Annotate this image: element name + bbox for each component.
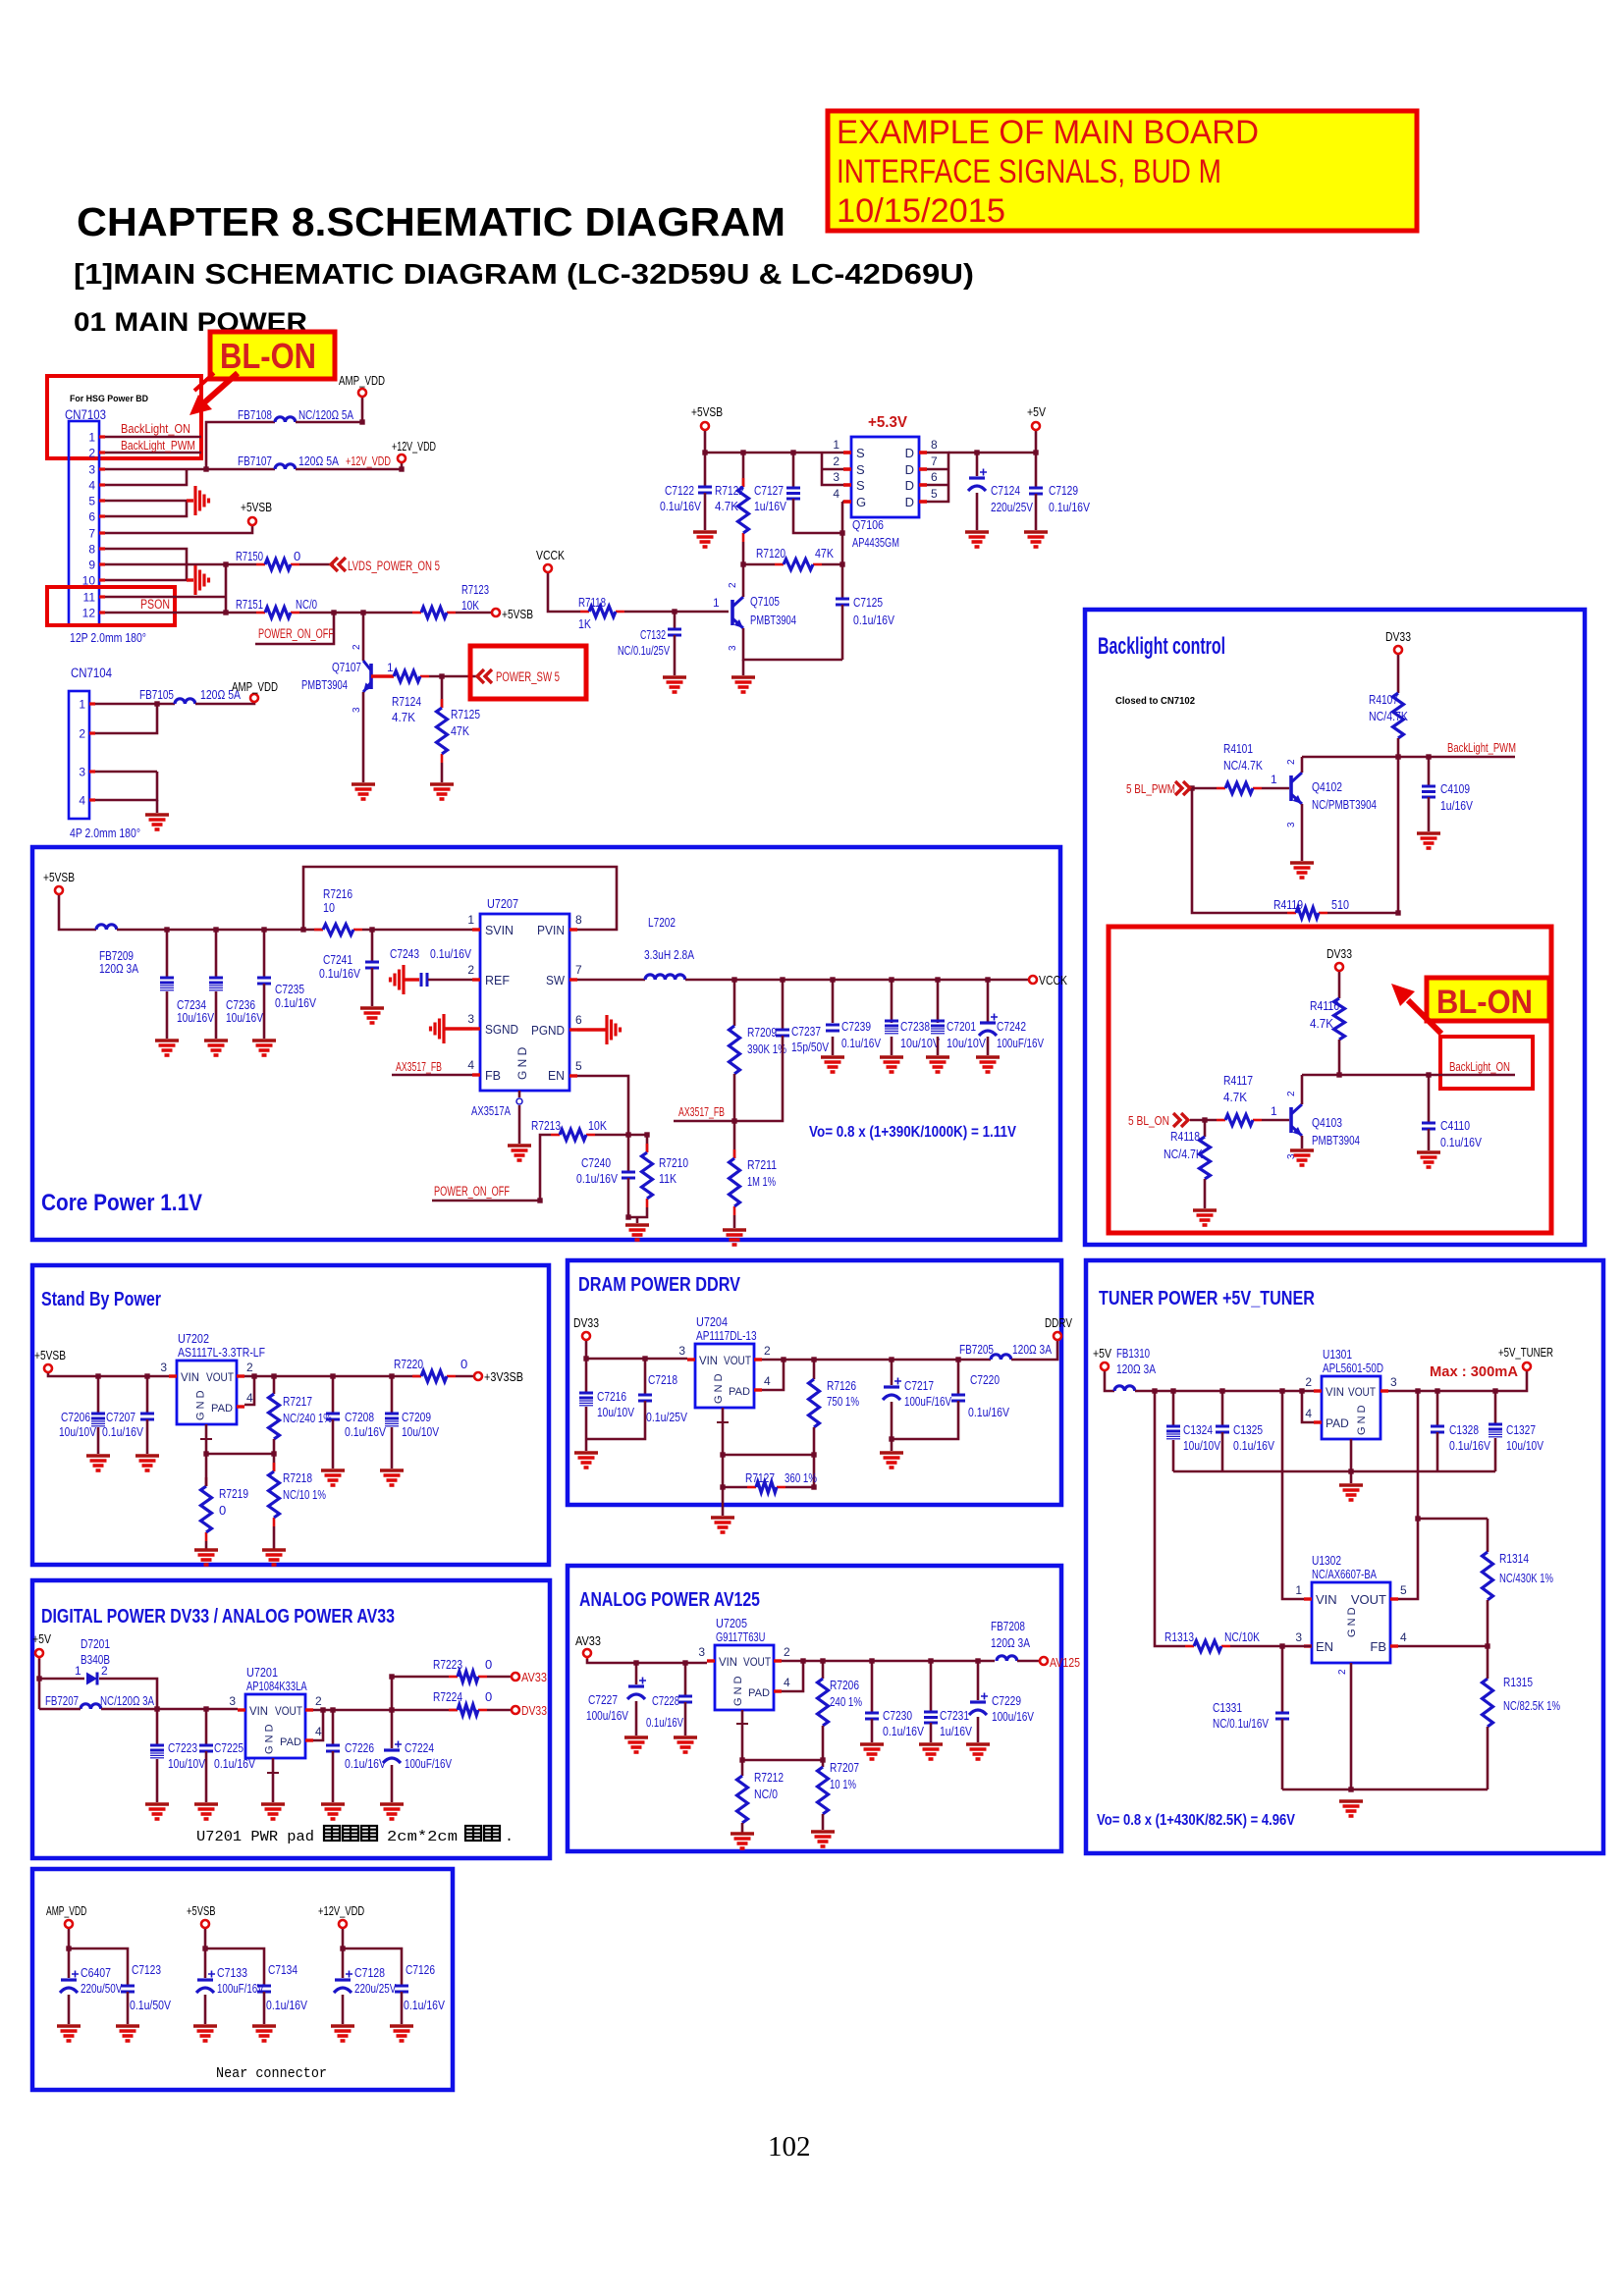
U1301 pin4 stub <box>1314 1420 1322 1423</box>
ground under R7211 <box>723 1228 746 1232</box>
svg-text:R1314: R1314 <box>1499 1551 1529 1566</box>
svg-text:C7228: C7228 <box>652 1693 679 1708</box>
svg-text:R7207: R7207 <box>830 1760 859 1775</box>
junction down to C7226 <box>332 1710 335 1745</box>
ground under C7238 <box>880 1055 903 1059</box>
svg-text:C1331: C1331 <box>1213 1700 1242 1715</box>
wire +5V down <box>38 1659 41 1709</box>
U7207 pin4 stub <box>472 1073 480 1076</box>
chassis ground CN7103 pins4-6 <box>195 486 209 515</box>
junction down to C1325 <box>1221 1391 1224 1426</box>
svg-text:PAD: PAD <box>729 1386 750 1398</box>
ground under R4118 <box>1193 1208 1217 1212</box>
wire C7225 to ground <box>205 1751 208 1802</box>
terminal +12V_VDD <box>398 454 406 462</box>
resistor R7210 <box>646 1144 649 1152</box>
ground under C7225 <box>194 1802 218 1806</box>
svg-text:C7238: C7238 <box>900 1019 930 1034</box>
svg-text:9: 9 <box>88 559 95 572</box>
svg-text:G N D: G N D <box>263 1724 275 1754</box>
svg-text:0.1u/50V: 0.1u/50V <box>130 1998 171 2012</box>
wire C7241 to ground <box>371 968 374 1006</box>
terminal +5V_TUNER <box>1523 1362 1531 1370</box>
wire R7210 bottom <box>628 1207 647 1217</box>
resistor R7118 <box>580 611 589 614</box>
junction down to C1324 <box>1172 1391 1175 1426</box>
ferrite bead FB7107 <box>275 464 296 469</box>
Q7106 pin 5 stub right <box>919 500 927 504</box>
wire C7125 bottom <box>841 605 844 660</box>
gnd net horizontal av125 <box>742 1759 823 1762</box>
svg-text:AMP_VDD: AMP_VDD <box>339 373 385 388</box>
svg-text:Q7107: Q7107 <box>332 660 361 674</box>
stub D pin7 <box>927 468 948 471</box>
capacitor C7235 <box>257 977 271 980</box>
svg-text:C7207: C7207 <box>106 1410 135 1424</box>
capacitor C7241 <box>365 961 379 964</box>
junction dots dram power <box>583 1356 960 1489</box>
wire R7120 left lead <box>743 563 775 566</box>
wire R7216 to SVIN <box>362 929 472 932</box>
svg-text:G: G <box>856 495 866 509</box>
blue section box Core Power <box>32 847 1060 1240</box>
BL-ON arrow <box>202 373 238 404</box>
CN7104 pin 2 pad <box>89 731 95 734</box>
wire CN7103 pin12 PSON <box>105 612 256 614</box>
SGND stub <box>444 1027 472 1030</box>
junction down to C1331 <box>1281 1646 1284 1713</box>
ferrite bead FB7207 <box>81 1704 101 1709</box>
U7202 GND pin down <box>205 1424 208 1454</box>
capacitor C7123 <box>121 1985 135 1988</box>
svg-text:LVDS_POWER_ON 5: LVDS_POWER_ON 5 <box>348 559 440 573</box>
svg-text:2: 2 <box>728 582 738 588</box>
Q7106 pin 7 stub right <box>919 467 927 471</box>
ground under R7125 <box>430 782 454 786</box>
resistor R4101 <box>1217 787 1225 790</box>
svg-text:R4117: R4117 <box>1223 1073 1253 1088</box>
wire +5VSB to FB7209 <box>59 895 96 930</box>
svg-text:AV33: AV33 <box>521 1670 547 1684</box>
junction down to C7201 <box>937 980 940 1023</box>
ground under C7229 <box>966 1742 990 1746</box>
junction down to R7122 <box>742 453 745 487</box>
svg-text:S: S <box>856 478 865 493</box>
svg-text:0.1u/16V: 0.1u/16V <box>660 499 701 513</box>
svg-text:[1]MAIN SCHEMATIC DIAGRAM (LC-: [1]MAIN SCHEMATIC DIAGRAM (LC-32D59U & L… <box>74 259 974 291</box>
input chevron LVDS_POWER_ON <box>331 558 346 571</box>
pin4 jog U1301 <box>1302 1391 1314 1422</box>
wire R7151 to R7123 <box>299 612 412 614</box>
svg-text:10u/10V: 10u/10V <box>59 1424 96 1439</box>
svg-text:NC/0.1u/16V: NC/0.1u/16V <box>1213 1716 1269 1731</box>
svg-text:0: 0 <box>460 1357 467 1371</box>
capacitor C7122 <box>698 486 712 489</box>
svg-text:DDRV: DDRV <box>1045 1315 1072 1330</box>
U7207 pin3 stub <box>472 1027 480 1030</box>
tuner bottom gnd net <box>1282 1789 1488 1791</box>
svg-text:TUNER POWER +5V_TUNER: TUNER POWER +5V_TUNER <box>1099 1288 1315 1309</box>
wire junction up to FB7108 line <box>206 422 275 469</box>
capacitor C7206 10u <box>91 1413 105 1415</box>
svg-text:VIN: VIN <box>249 1704 268 1718</box>
ground under U7201 <box>261 1802 285 1806</box>
svg-text:L7202: L7202 <box>648 915 676 930</box>
junction dots backlight control <box>1189 754 1431 1122</box>
resistor R4116 <box>1334 998 1345 1040</box>
svg-text:DIGITAL POWER DV33 / ANALOG PO: DIGITAL POWER DV33 / ANALOG POWER AV33 <box>41 1606 395 1628</box>
capacitor C7128 polarized <box>335 1978 351 1981</box>
U7202 pin4 stub <box>237 1405 244 1408</box>
wire CN7104 pin4 <box>95 772 157 800</box>
svg-text:CHAPTER 8.SCHEMATIC DIAGRAM: CHAPTER 8.SCHEMATIC DIAGRAM <box>77 199 785 244</box>
wire R7118 to Q7105 base <box>624 611 729 614</box>
svg-text:C7231: C7231 <box>940 1708 969 1723</box>
svg-text:C7123: C7123 <box>132 1962 161 1977</box>
ferrite bead FB7108 <box>275 417 296 422</box>
regulator U1301 body <box>1322 1376 1380 1439</box>
stub to chassis ground pins 4-6 <box>187 499 193 502</box>
CN7103 pin 5 pad <box>99 499 105 502</box>
svg-text:7: 7 <box>931 454 938 468</box>
junction dots core power <box>164 927 990 1219</box>
wire C7128 to ground <box>342 1995 345 2024</box>
wire R7218 top <box>273 1454 276 1471</box>
Q7106 pin 4 stub left <box>843 500 851 504</box>
wire C7122 to ground <box>704 493 707 530</box>
svg-text:+5V_TUNER: +5V_TUNER <box>1498 1345 1553 1360</box>
U1301 pin2 stub <box>1314 1389 1322 1392</box>
svg-text:10K: 10K <box>588 1118 607 1133</box>
main rail FB7209 to R7216 <box>117 929 323 932</box>
U1302 pin4 stub <box>1390 1644 1398 1647</box>
ground tuner bottom <box>1339 1799 1363 1803</box>
VOUT U1302 to rail <box>1398 1519 1418 1599</box>
junction dots digital power <box>36 1674 394 1712</box>
wire R7123 to +5VSB terminal <box>456 612 491 614</box>
CN7104 pin 4 pad <box>89 798 95 801</box>
svg-text:G9117T63U: G9117T63U <box>716 1629 765 1644</box>
svg-text:2: 2 <box>764 1344 771 1358</box>
svg-text:47K: 47K <box>815 546 834 561</box>
U7201 GND pin down <box>272 1758 275 1802</box>
red highlight box PSON pins 11-12 <box>47 587 175 625</box>
left rail to R1313 <box>1155 1391 1185 1646</box>
svg-text:VOUT: VOUT <box>1351 1592 1386 1607</box>
svg-text:APL5601-50D: APL5601-50D <box>1323 1361 1383 1375</box>
junction down to C7132 <box>674 612 677 629</box>
resistor R7213 <box>551 1134 560 1137</box>
stub D pin6 <box>927 484 948 487</box>
svg-text:0.1u/16V: 0.1u/16V <box>430 946 471 961</box>
svg-text:4.7K: 4.7K <box>715 499 738 513</box>
svg-text:2: 2 <box>352 644 362 650</box>
wire C7238 to ground <box>891 1037 893 1055</box>
svg-text:+5VSB: +5VSB <box>34 1348 66 1362</box>
terminal AMP_VDD CN7104 <box>250 694 258 702</box>
terminal DV33 dram <box>582 1332 590 1340</box>
wire R1313 to EN <box>1230 1645 1312 1648</box>
svg-text:2: 2 <box>1286 759 1297 765</box>
svg-text:100uF/16V: 100uF/16V <box>217 1981 264 1996</box>
svg-text:R7120: R7120 <box>756 546 785 561</box>
capacitor C7208 <box>326 1413 340 1415</box>
svg-text:10u/10V: 10u/10V <box>597 1405 634 1419</box>
main rail to VIN U7201 b <box>101 1708 238 1711</box>
R1315 top lead <box>1487 1646 1489 1679</box>
diode D7201 <box>86 1673 97 1685</box>
svg-text:C7237: C7237 <box>791 1024 821 1039</box>
svg-text:AV125: AV125 <box>1050 1655 1080 1670</box>
bypass loop over U7207 to PVIN <box>303 867 617 930</box>
wire pins3-4 to ground <box>156 800 159 813</box>
svg-text:R1315: R1315 <box>1503 1675 1533 1689</box>
svg-text:0.1u/16V: 0.1u/16V <box>1233 1438 1274 1453</box>
capacitor C7227 100u <box>628 1684 644 1687</box>
CN7103 pin 4 pad <box>99 483 105 486</box>
svg-text:NC/AX6607-BA: NC/AX6607-BA <box>1312 1567 1377 1581</box>
capacitor C1324 10u <box>1166 1425 1180 1428</box>
svg-text:POWER_ON_OFF: POWER_ON_OFF <box>434 1184 510 1199</box>
svg-text:15p/50V: 15p/50V <box>791 1040 829 1054</box>
svg-text:C7216: C7216 <box>597 1389 626 1404</box>
svg-text:10u/10V: 10u/10V <box>947 1036 986 1050</box>
wire C7206 to ground <box>97 1427 100 1454</box>
terminal +12V_VDD capbank <box>339 1920 347 1928</box>
svg-text:NC/0: NC/0 <box>754 1787 778 1801</box>
junction down to C7229 <box>977 1661 980 1700</box>
junction dots analog power av125 <box>633 1658 980 1762</box>
ground under C7124 <box>965 530 989 534</box>
svg-text:NC/82.5K 1%: NC/82.5K 1% <box>1503 1698 1560 1713</box>
junction down to C7127 <box>792 453 795 487</box>
svg-text:C7128: C7128 <box>354 1965 385 1980</box>
resistor R4107 <box>1393 693 1404 738</box>
capacitor C7237 <box>776 1029 789 1032</box>
transistor Q4103 <box>1289 1107 1293 1133</box>
svg-text:Near connector: Near connector <box>216 2065 327 2082</box>
svg-text:SGND: SGND <box>485 1022 518 1037</box>
capacitor C7228 <box>678 1695 692 1698</box>
svg-text:DV33: DV33 <box>573 1315 599 1330</box>
ground under C7133 <box>193 2024 217 2028</box>
terminal DV33 backlight2 <box>1335 963 1343 971</box>
regulator U7202 body <box>177 1361 237 1424</box>
ground under C7208 <box>321 1468 345 1472</box>
svg-text:10/15/2015: 10/15/2015 <box>837 192 1005 230</box>
ferrite bead FB1310 <box>1114 1386 1135 1391</box>
svg-text:DV33: DV33 <box>521 1703 547 1718</box>
svg-text:PSON: PSON <box>140 597 170 612</box>
ferrite bead FB7205 <box>991 1355 1011 1360</box>
wire CN7103 pin8 <box>105 549 187 580</box>
resistor R4119 <box>1287 912 1296 915</box>
terminal AMP_VDD <box>358 389 366 397</box>
wire CN7103 pin9 to R7150 <box>105 563 256 566</box>
svg-text:0.1u/16V: 0.1u/16V <box>404 1998 445 2012</box>
capacitor C7129 <box>1029 487 1043 490</box>
svg-text:1u/16V: 1u/16V <box>1440 798 1473 813</box>
Q7106 pin 3 stub left <box>843 483 851 487</box>
wire C7134 to ground <box>263 1992 266 2024</box>
wire C4110 to ground <box>1428 1129 1431 1150</box>
gnd stub C7217 <box>891 1439 893 1451</box>
junction down to R4118 <box>1204 1120 1207 1137</box>
wire R7120 right to G rail <box>822 563 842 566</box>
svg-text:VIN: VIN <box>699 1354 718 1367</box>
wire FB7205 to DDRV <box>1011 1341 1057 1360</box>
junction down to C7208 <box>332 1376 335 1414</box>
svg-text:G N D: G N D <box>1356 1405 1368 1435</box>
capacitor C7242 polarized <box>980 1021 996 1024</box>
svg-text:C7226: C7226 <box>345 1740 374 1755</box>
wire CN7104 pin1 to FB7105 <box>95 703 175 706</box>
Q4103 emitter down <box>1301 1136 1304 1148</box>
svg-text:4: 4 <box>784 1676 790 1689</box>
svg-text:U7205: U7205 <box>716 1616 747 1630</box>
svg-text:C7225: C7225 <box>214 1740 244 1755</box>
svg-text:4: 4 <box>764 1374 771 1388</box>
svg-text:U7207: U7207 <box>487 896 518 911</box>
wire R7219 to ground <box>205 1541 208 1550</box>
wire CN7103 pin7 to +5VSB <box>105 526 252 533</box>
connector CN7104 body <box>69 691 89 819</box>
svg-text:C7240: C7240 <box>581 1155 611 1170</box>
terminal +5V digital <box>35 1649 43 1657</box>
junction down to R7125 <box>441 676 444 708</box>
wire R7122 to R7120 junction <box>742 542 745 564</box>
junction down to C7206 <box>97 1376 100 1414</box>
U7205 pin2 stub <box>774 1659 782 1662</box>
terminal AV125 <box>1040 1657 1048 1665</box>
capacitor C6407 polarized <box>61 1978 77 1981</box>
ground under C7123 <box>116 2024 139 2028</box>
AX3517_FB net line <box>674 1036 783 1121</box>
svg-text:G N D: G N D <box>713 1373 725 1404</box>
branch +5VSB to second cap <box>205 1949 264 1986</box>
U7207 pin1 stub <box>472 928 480 931</box>
wire DV33 to R4116 <box>1338 972 1341 998</box>
svg-text:R7124: R7124 <box>392 694 421 709</box>
svg-text:120Ω 3A: 120Ω 3A <box>1012 1342 1052 1357</box>
svg-text:102: 102 <box>768 2131 811 2163</box>
svg-text:240 1%: 240 1% <box>830 1694 862 1709</box>
transistor Q7105 PMBT3904 <box>731 600 734 625</box>
svg-text:AP1117DL-13: AP1117DL-13 <box>696 1328 757 1343</box>
R7209 bottom to FB net <box>733 1074 736 1121</box>
U7201 pin2 stub <box>305 1708 313 1711</box>
ferrite bead FB7105 <box>175 699 195 704</box>
svg-text:For HSG Power BD: For HSG Power BD <box>70 394 148 404</box>
ground under C7122 <box>693 530 717 534</box>
U7207 pin7 stub <box>569 978 577 981</box>
svg-text:NC/0: NC/0 <box>296 597 317 612</box>
wire C7243 to REF pin <box>428 979 472 982</box>
capacitor C7126 <box>395 1985 408 1988</box>
svg-text:0.1u/16V: 0.1u/16V <box>576 1171 618 1186</box>
svg-text:100uF/16V: 100uF/16V <box>997 1036 1044 1050</box>
svg-text:VCCK: VCCK <box>536 548 565 562</box>
svg-text:VIN: VIN <box>719 1655 737 1669</box>
resistor R7125 <box>441 699 444 708</box>
chassis ground CN7103 pin10 <box>195 565 209 595</box>
svg-text:3: 3 <box>728 645 738 651</box>
svg-text:10u/16V: 10u/16V <box>226 1010 263 1025</box>
wire C7226 to ground <box>332 1751 335 1802</box>
svg-text:C7129: C7129 <box>1049 483 1078 498</box>
svg-text:C7241: C7241 <box>323 952 352 967</box>
svg-text:1: 1 <box>713 596 720 610</box>
U7207 GND pin circle <box>516 1098 522 1104</box>
junction down to C7238 <box>891 980 893 1023</box>
chevron BL_PWM <box>1175 781 1190 795</box>
yellow note box <box>828 111 1417 231</box>
wire C7207 to ground <box>146 1419 149 1454</box>
svg-text:Stand By Power: Stand By Power <box>41 1289 161 1310</box>
red highlight box BL-ON circuit <box>1109 927 1551 1233</box>
svg-text:0.1u/16V: 0.1u/16V <box>853 613 894 627</box>
svg-text:FB: FB <box>1370 1639 1386 1654</box>
U7201 gnd tick <box>267 1772 279 1774</box>
ground under C4109 <box>1417 831 1440 835</box>
transistor Q7107 PMBT3904 <box>369 664 373 689</box>
wire C7234 to ground <box>166 991 169 1039</box>
capacitor C7239 <box>826 1024 839 1027</box>
svg-text:0.1u/16V: 0.1u/16V <box>345 1424 386 1439</box>
svg-text:0.1u/16V: 0.1u/16V <box>1440 1135 1482 1149</box>
wire R7127 left <box>723 1486 747 1489</box>
capacitor C7234 10u <box>160 977 174 980</box>
wire G pin drop <box>842 501 843 504</box>
wire C7129 to ground <box>1035 494 1038 530</box>
Q4103 collector up <box>1301 1075 1304 1104</box>
svg-text:2: 2 <box>833 454 839 468</box>
svg-text:0.1u/16V: 0.1u/16V <box>345 1756 386 1771</box>
R1314 bottom to FB line <box>1487 1600 1489 1646</box>
svg-text:0.1u/25V: 0.1u/25V <box>646 1410 687 1424</box>
svg-text:G N D: G N D <box>515 1046 529 1080</box>
U1302 GND pin down <box>1350 1663 1353 1789</box>
CN7103 pin 6 pad <box>99 514 105 517</box>
wire C7126 to ground <box>401 1992 404 2024</box>
terminal DDRV <box>1054 1332 1061 1340</box>
wire R7223 to AV33 <box>487 1676 511 1679</box>
svg-text:NC/4.7K: NC/4.7K <box>1369 709 1408 723</box>
CN7104 pin 3 pad <box>89 770 95 773</box>
svg-text:U7204: U7204 <box>696 1314 728 1329</box>
resistor R7209 <box>730 1026 740 1074</box>
U1302 pin1 stub <box>1304 1597 1312 1600</box>
U7202 pin3 stub <box>169 1374 177 1377</box>
capacitor C7231 1u <box>924 1711 938 1714</box>
wire R4107 to PWM line <box>1397 738 1400 757</box>
wire R4117 to Q4103 base <box>1262 1119 1289 1122</box>
svg-text:C7122: C7122 <box>665 483 694 498</box>
svg-text:NC/PMBT3904: NC/PMBT3904 <box>1312 797 1377 812</box>
red highlight box around CN7103 backlight pins <box>47 376 201 458</box>
capacitor C7134 <box>257 1985 271 1988</box>
svg-text:R4116: R4116 <box>1310 998 1339 1013</box>
svg-text:2: 2 <box>1286 1091 1297 1096</box>
chevron BL_ON <box>1173 1113 1188 1127</box>
svg-text:BL-ON: BL-ON <box>220 336 316 376</box>
pin4 jog U7201 <box>313 1710 323 1740</box>
VCCK rail <box>685 979 1028 982</box>
svg-text:4: 4 <box>79 794 85 808</box>
ground under C7241 <box>360 1006 384 1010</box>
svg-text:AX3517_FB: AX3517_FB <box>678 1104 725 1119</box>
wire R7207 to ground <box>822 1814 825 1830</box>
